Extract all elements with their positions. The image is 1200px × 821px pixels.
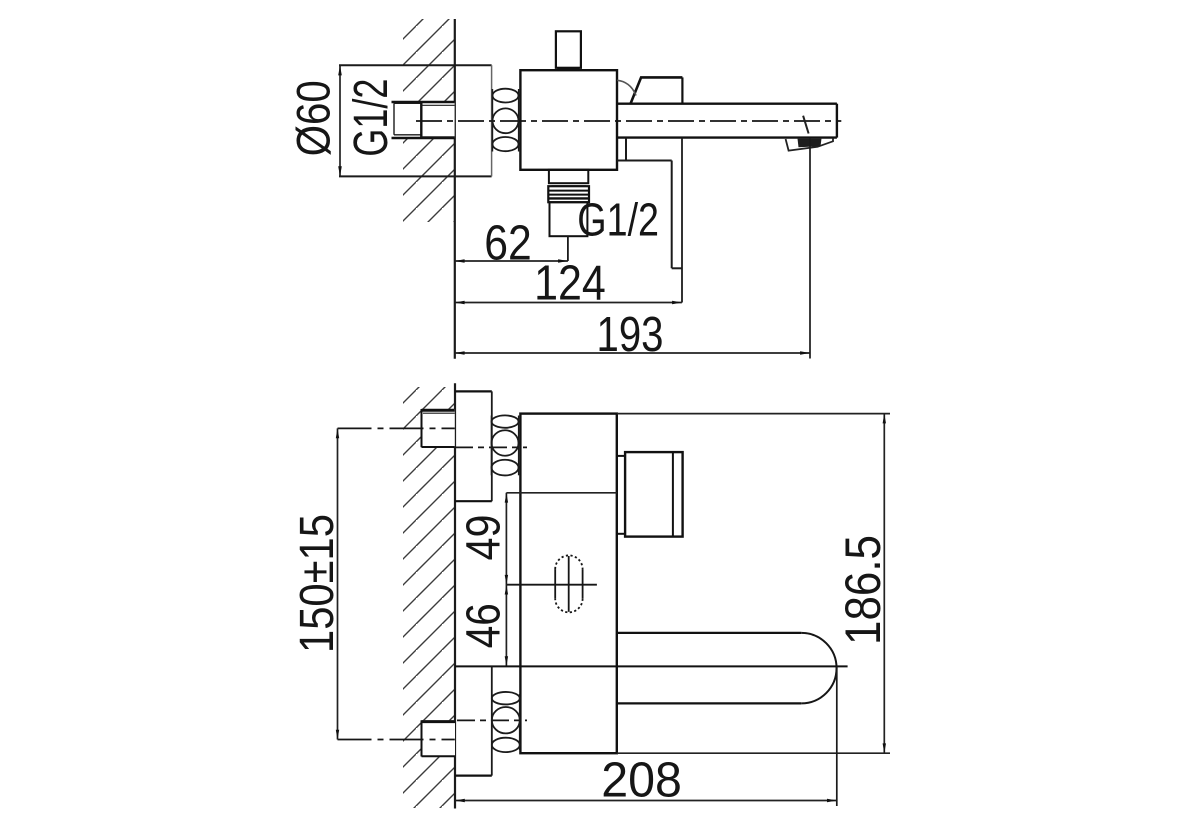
lever shoulder curve bbox=[617, 80, 636, 95]
escutcheon front face bbox=[491, 65, 493, 176]
dimension 186.5 bbox=[617, 413, 890, 415]
svg-text:62: 62 bbox=[484, 217, 532, 271]
wall face line (front view) bbox=[454, 383, 456, 808]
centre line lower pipe bbox=[338, 739, 455, 741]
extension from outlet to 62 dim bbox=[567, 236, 569, 261]
svg-text:186.5: 186.5 bbox=[835, 535, 891, 645]
valve body (front view) bbox=[520, 414, 616, 754]
svg-text:124: 124 bbox=[534, 257, 606, 311]
wall hatching (front view) bbox=[403, 387, 455, 808]
centre line upper nut bbox=[455, 446, 527, 448]
step under spout (top view) bbox=[625, 138, 627, 161]
stem base bar bbox=[557, 67, 579, 70]
aerator under spout bbox=[786, 138, 833, 150]
49/46 dimension bbox=[505, 493, 507, 666]
escutcheon (top, front view) bbox=[455, 390, 492, 392]
svg-text:G1/2: G1/2 bbox=[345, 79, 398, 157]
svg-text:G1/2: G1/2 bbox=[577, 194, 659, 246]
dimension 62 bbox=[455, 260, 568, 262]
svg-text:49: 49 bbox=[458, 515, 511, 561]
diverter stem on body bbox=[556, 31, 581, 68]
wall face line (top view) bbox=[454, 19, 456, 359]
extension from spout cap to 208 dim bbox=[836, 666, 838, 806]
escutcheon bottom edge + Ø60 extension bbox=[339, 175, 492, 177]
extension line from lever to 124 dim bbox=[681, 138, 683, 303]
svg-text:208: 208 bbox=[601, 754, 682, 808]
svg-text:46: 46 bbox=[458, 603, 511, 648]
upper inlet pipe (front view) bbox=[422, 409, 455, 447]
spout (front view) bbox=[617, 632, 802, 634]
knurled nut (upper, front view) bbox=[491, 416, 493, 476]
Ø60 dimension line bbox=[339, 65, 341, 176]
escutcheon top edge + Ø60 extension bbox=[339, 64, 492, 66]
Ø60 arrow up bbox=[338, 65, 342, 75]
centre line lower nut bbox=[457, 719, 527, 721]
lever handle (top view) bbox=[631, 77, 683, 103]
extension line from aerator to 193 dim bbox=[809, 138, 811, 359]
knurled nut (top view) bbox=[491, 89, 493, 152]
valve body (top view) bbox=[520, 70, 617, 170]
escutcheon (bottom, front view) bbox=[491, 666, 493, 775]
lever hole oval bbox=[554, 569, 556, 599]
long mid line (46 reference / spout seam / escutcheon top) bbox=[455, 665, 848, 667]
wall pipe fitting (side/top view) bbox=[392, 102, 455, 138]
knurled nut (lower, front view) bbox=[491, 694, 493, 750]
dimension 124 bbox=[455, 302, 682, 304]
handle knob (front view) bbox=[617, 455, 625, 457]
spout (top view) bbox=[617, 102, 837, 104]
shower outlet below body bbox=[549, 170, 588, 183]
dimension 193 bbox=[455, 352, 810, 354]
Ø60 arrow down bbox=[338, 166, 342, 176]
svg-text:193: 193 bbox=[597, 308, 664, 362]
svg-text:150±15: 150±15 bbox=[291, 514, 344, 653]
svg-text:Ø60: Ø60 bbox=[287, 80, 340, 156]
wall hatching (top view) bbox=[403, 19, 455, 222]
dimension 208 bbox=[455, 800, 837, 802]
lower inlet pipe (front view) bbox=[422, 720, 456, 756]
centre line upper pipe bbox=[338, 427, 455, 429]
dimension 150±15 bbox=[337, 428, 339, 739]
main centre line (top view) bbox=[416, 120, 841, 122]
aerator slant line in spout bbox=[803, 116, 809, 134]
